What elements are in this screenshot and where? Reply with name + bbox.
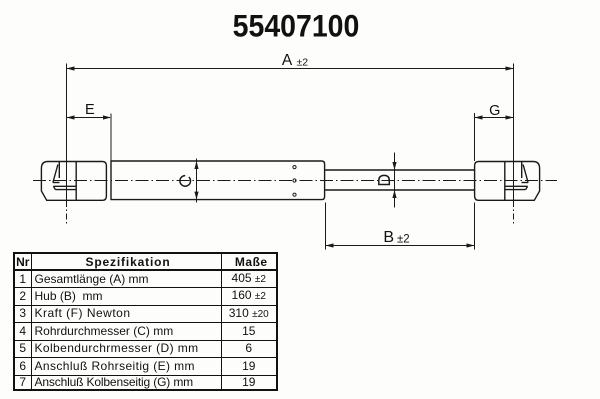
svg-text:B: B [383, 229, 394, 246]
svg-text:A: A [282, 52, 293, 69]
svg-text:55407100: 55407100 [233, 9, 360, 44]
svg-text:±2: ±2 [297, 57, 309, 69]
svg-text:±2: ±2 [397, 234, 410, 246]
svg-text:G: G [489, 103, 500, 119]
svg-text:E: E [85, 102, 95, 118]
